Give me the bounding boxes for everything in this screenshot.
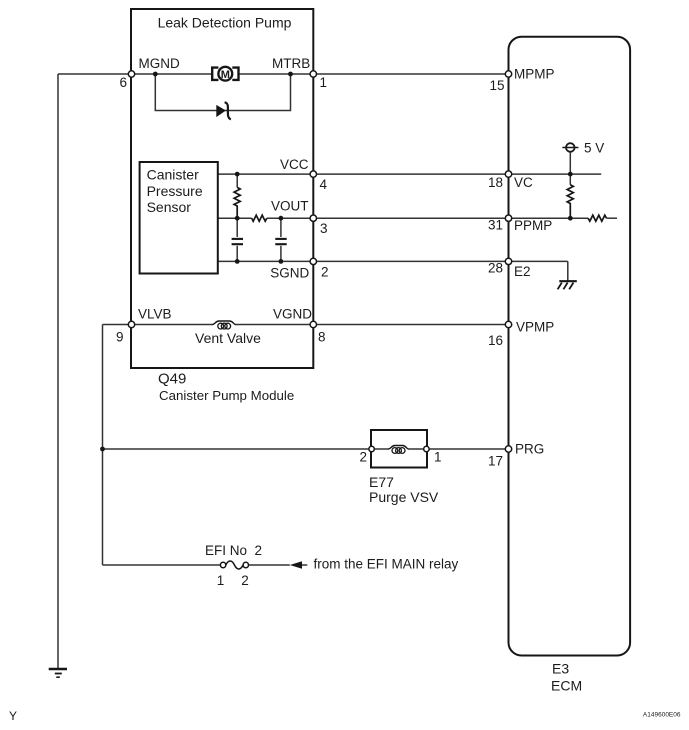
- wire: E2 drop to chassis ground: [567, 261, 569, 281]
- node: MTRB junction dot: [288, 72, 293, 77]
- fuse EFI No 2: [220, 561, 248, 569]
- wire: arrow tail dash: [302, 564, 307, 566]
- svg-text:1: 1: [434, 450, 442, 465]
- svg-text:MTRB: MTRB: [272, 56, 310, 71]
- resistor: sensor pull-up between VCC and VOUT: [234, 174, 240, 218]
- svg-text:9: 9: [116, 330, 124, 345]
- svg-text:PPMP: PPMP: [514, 218, 552, 233]
- svg-text:EFI No 2: EFI No 2: [205, 543, 262, 558]
- svg-text:16: 16: [488, 333, 503, 348]
- node: MGND junction dot: [153, 72, 158, 77]
- wire: fuse row from rail to fuse: [103, 564, 221, 566]
- pin 18 of ECM: [505, 171, 511, 177]
- wire: VGND row right of coil to VPMP: [235, 324, 509, 326]
- pin 1 of Q49: [310, 71, 316, 77]
- svg-text:2: 2: [321, 265, 329, 280]
- svg-text:MGND: MGND: [139, 56, 180, 71]
- pin 6 of Q49: [128, 71, 134, 77]
- svg-text:from the EFI MAIN relay: from the EFI MAIN relay: [314, 557, 459, 572]
- svg-text:18: 18: [488, 175, 503, 190]
- 5V supply symbol: [562, 143, 578, 174]
- svg-text:5 V: 5 V: [584, 141, 604, 156]
- svg-text:3: 3: [320, 221, 328, 236]
- svg-text:VPMP: VPMP: [516, 320, 554, 335]
- pin 16 of ECM: [505, 321, 511, 327]
- svg-text:Pressure: Pressure: [147, 183, 203, 199]
- node: VCC/resistor dot: [235, 172, 240, 177]
- svg-text:ECM: ECM: [551, 678, 582, 694]
- svg-text:2: 2: [359, 450, 367, 465]
- svg-text:Vent Valve: Vent Valve: [195, 330, 261, 346]
- ECM box E3: [509, 37, 631, 656]
- svg-text:Q49: Q49: [158, 371, 186, 388]
- wire: PPMP stub right of resistor: [607, 217, 618, 219]
- pin 4 of Q49: [310, 171, 316, 177]
- purge VSV coil: [374, 446, 424, 454]
- svg-text:MPMP: MPMP: [514, 67, 555, 82]
- svg-text:1: 1: [217, 573, 225, 588]
- earth ground (left rail): [49, 669, 67, 677]
- svg-text:M: M: [221, 69, 230, 81]
- wire: VOUT to PPMP row (left segment): [218, 217, 252, 219]
- arrow: from EFI MAIN relay: [290, 561, 302, 569]
- node: PPMP resistor dot: [568, 216, 573, 221]
- pin 2 of Q49: [310, 258, 316, 264]
- svg-text:VC: VC: [514, 175, 533, 190]
- pin 2 of purge VSV: [369, 446, 374, 451]
- node: SGND/C1 dot: [235, 259, 240, 264]
- wire: PRG row from rail to purge VSV: [103, 448, 372, 450]
- svg-text:E2: E2: [514, 264, 531, 279]
- svg-text:E3: E3: [552, 661, 569, 677]
- node: VOUT/C2 dot: [279, 216, 284, 221]
- svg-text:E77: E77: [369, 474, 394, 490]
- svg-text:31: 31: [488, 218, 503, 233]
- capacitor C2 (on VOUT output): [275, 218, 286, 261]
- svg-text:VCC: VCC: [280, 157, 309, 172]
- pin 1 of purge VSV: [424, 446, 429, 451]
- wire: VOUT to PPMP row (right segment): [267, 217, 588, 219]
- svg-text:Leak Detection Pump: Leak Detection Pump: [158, 15, 292, 31]
- wire: fuse to arrow: [249, 564, 290, 566]
- svg-text:VGND: VGND: [273, 307, 312, 322]
- svg-text:15: 15: [489, 78, 504, 93]
- svg-text:Canister Pump Module: Canister Pump Module: [159, 388, 294, 403]
- module box Q49 (Leak Detection Pump / Canister Pump Module): [131, 9, 313, 368]
- wire: diode bypass loop under motor: [155, 74, 290, 111]
- pin 3 of Q49: [310, 215, 316, 221]
- node: VC 5V dot: [568, 172, 573, 177]
- purge VSV box E77: [371, 430, 427, 468]
- wire: VCC to VC row: [218, 173, 601, 175]
- wire: VLVB row left of coil: [103, 324, 214, 326]
- wire: row MGND/MTRB/MPMP (pump motor feed, left of motor): [58, 73, 212, 75]
- diode D (motor bypass zener): [216, 102, 231, 119]
- vent valve coil L1: [213, 321, 236, 329]
- resistor: VOUT series resistor: [252, 215, 267, 221]
- svg-text:A149600E06: A149600E06: [643, 712, 681, 719]
- wire: branch rail VLVB down to fuse row: [102, 325, 104, 566]
- sensor box: Canister Pressure Sensor: [140, 162, 218, 274]
- wire: row MGND/MTRB/MPMP (pump motor feed, right of motor): [239, 73, 509, 75]
- svg-text:Purge VSV: Purge VSV: [369, 489, 439, 505]
- pin 31 of ECM: [505, 215, 511, 221]
- pin 17 of ECM: [505, 446, 511, 452]
- svg-text:PRG: PRG: [515, 442, 544, 457]
- svg-text:VOUT: VOUT: [271, 199, 309, 214]
- resistor: ECM internal pull-up on VC: [567, 174, 573, 218]
- svg-text:Y: Y: [9, 709, 17, 723]
- node: SGND/C2 dot: [279, 259, 284, 264]
- node: PRG branch dot: [100, 447, 105, 452]
- svg-text:SGND: SGND: [270, 266, 309, 281]
- wire: left ground rail from node 6 row down to earth ground: [57, 74, 59, 669]
- wire: SGND to E2 row: [218, 260, 568, 262]
- pin 28 of ECM: [505, 258, 511, 264]
- pin 8 of Q49: [310, 321, 316, 327]
- svg-text:VLVB: VLVB: [138, 307, 172, 322]
- svg-text:17: 17: [488, 454, 503, 469]
- pin 9 of Q49: [128, 321, 134, 327]
- wire: PRG row from purge VSV to ECM pin 17: [427, 448, 509, 450]
- motor M (leak detection pump motor): [212, 67, 238, 81]
- pin 15 of ECM: [505, 71, 511, 77]
- svg-text:6: 6: [119, 75, 127, 90]
- svg-text:28: 28: [488, 261, 503, 276]
- svg-text:2: 2: [241, 573, 249, 588]
- chassis ground (E2 internal): [558, 281, 577, 289]
- svg-text:1: 1: [320, 75, 328, 90]
- node: VOUT/resistor dot: [235, 216, 240, 221]
- resistor: PPMP internal resistor in ECM: [588, 215, 606, 221]
- svg-text:Sensor: Sensor: [147, 199, 192, 215]
- svg-text:Canister: Canister: [147, 167, 199, 183]
- svg-text:4: 4: [320, 177, 328, 192]
- svg-text:8: 8: [318, 330, 326, 345]
- capacitor C1 (on VOUT node): [232, 218, 243, 261]
